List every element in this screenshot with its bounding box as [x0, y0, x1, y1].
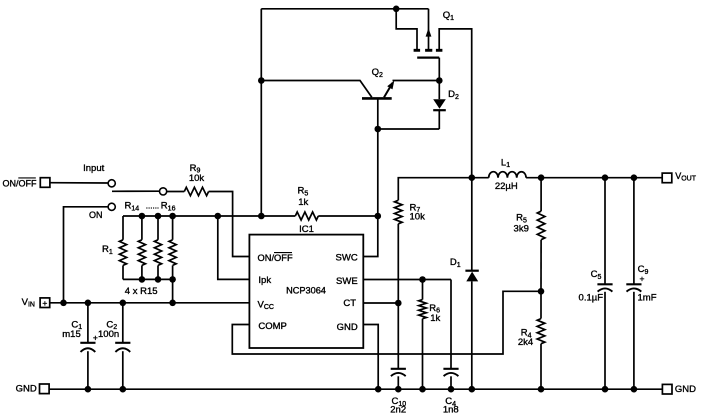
label R6	[429, 303, 440, 315]
svg-text:1mF: 1mF	[638, 293, 657, 304]
transistor Q1 (P-channel MOSFET)	[396, 9, 472, 178]
svg-text:+: +	[42, 298, 47, 308]
svg-text:ON/OFF: ON/OFF	[3, 178, 37, 188]
capacitor C9	[626, 178, 641, 390]
node dot output/C5	[602, 174, 609, 181]
svg-text:0.1µF: 0.1µF	[579, 293, 604, 304]
node dot VIN/bank leg	[169, 300, 176, 307]
svg-text:SWE: SWE	[336, 276, 358, 287]
ground rail dots	[85, 386, 638, 393]
node E dot R5 right / SWC vertical	[375, 213, 382, 220]
svg-text:3k9: 3k9	[514, 224, 529, 235]
svg-text:NCP3064: NCP3064	[286, 285, 326, 295]
label C10	[391, 396, 406, 408]
svg-text:COMP: COMP	[258, 321, 287, 332]
node dot VIN/C2	[120, 300, 127, 307]
label D1	[450, 257, 461, 269]
wire top rail from node A to Q1 source	[261, 8, 428, 10]
node A junction dot top rail	[393, 6, 400, 13]
wire bank bottom to VIN row	[172, 279, 174, 302]
svg-text:Ipk: Ipk	[258, 275, 271, 286]
inductor L1	[472, 172, 526, 178]
wire VIN row	[50, 302, 250, 304]
node D dot Q2 base row	[375, 126, 382, 133]
resistor R4	[537, 291, 545, 389]
label D2	[448, 89, 459, 101]
capacitor C1	[80, 303, 95, 389]
transistor Q2 (NPN)	[261, 81, 394, 99]
node H dot CT/R7/C10	[395, 300, 402, 307]
node dots bank bottom rail	[139, 276, 176, 283]
op-amp U1 IC1 NCP3064 box	[249, 235, 363, 348]
wire R5 to SWC vertical	[318, 215, 378, 217]
svg-text:IC1: IC1	[299, 224, 314, 235]
node F dot left loop / R5 row	[258, 213, 265, 220]
wire switch common to R9	[167, 191, 185, 193]
svg-text:m15: m15	[62, 329, 80, 340]
wire SWC vertical (base row to SWC pin)	[363, 129, 378, 257]
label R5 divider	[516, 213, 527, 225]
svg-text:GND: GND	[337, 322, 358, 333]
svg-text:ON/OFF: ON/OFF	[258, 253, 293, 263]
wire input terminal to switch pole	[50, 182, 108, 184]
node dot VIN/ON leg	[60, 300, 67, 307]
svg-text:10k: 10k	[189, 173, 205, 184]
pin label VCC	[258, 299, 274, 311]
terminal VOUT square	[662, 173, 672, 183]
node dots bank top rail	[139, 213, 176, 220]
terminal VIN square	[40, 298, 50, 308]
wire CT pin row	[363, 302, 398, 304]
label R14 ...... R16	[125, 201, 176, 213]
terminal ON/OFF input square	[40, 178, 50, 188]
node K dot L1 right / R5 divider top	[538, 174, 545, 181]
label C4	[445, 396, 456, 408]
svg-text:1k: 1k	[298, 197, 308, 208]
pin label ON/OFF	[258, 253, 293, 263]
switch common circle	[160, 188, 167, 195]
wire ON circle to VIN row	[64, 207, 109, 303]
node G dot Ipk leg / R5 row	[215, 213, 222, 220]
wire SWE row	[363, 279, 451, 281]
wire Q2 base lead	[377, 98, 379, 129]
label C1	[71, 319, 82, 331]
resistor R5 divider (3k9)	[537, 178, 545, 292]
capacitor C2	[115, 303, 130, 389]
label ON/OFF terminal	[3, 178, 37, 188]
wire left loop vertical (top rail to R5 row)	[260, 9, 262, 216]
wire GND pin to rail	[363, 325, 378, 390]
node L dot divider mid / COMP	[538, 288, 545, 295]
svg-text:100n: 100n	[98, 329, 119, 340]
node dot output/C9	[631, 174, 638, 181]
wire Ipk leg (R5 row to Ipk pin)	[218, 216, 250, 279]
wire Q1 gate lead	[438, 58, 440, 81]
node B dot Q2 collector rail	[258, 77, 265, 84]
resistor R7	[395, 178, 472, 303]
capacitor C5	[597, 178, 612, 390]
wire ground rail	[49, 388, 662, 390]
wire R5 row (bank to R5)	[123, 215, 295, 217]
terminal GND left square	[40, 384, 50, 394]
svg-text:GND: GND	[16, 384, 37, 395]
wire D2 cathode row to Q2 base	[378, 128, 440, 130]
switch blade	[112, 190, 159, 192]
label VIN	[22, 297, 35, 309]
label C9	[638, 264, 649, 276]
label Q2	[372, 67, 383, 79]
node J dot switch node	[469, 174, 476, 181]
diode D2	[433, 81, 446, 130]
svg-text:CT: CT	[343, 298, 356, 309]
node dot VIN/C1	[85, 300, 92, 307]
capacitor C10	[391, 303, 406, 389]
resistor R6	[419, 280, 427, 390]
label R7	[410, 202, 421, 214]
resistor bank R1 and 4 x R15	[119, 216, 176, 279]
svg-text:22µH: 22µH	[495, 181, 518, 192]
node C dot Q1 gate / Q2 emitter / D2 anode	[436, 77, 443, 84]
switch pole circle Input	[108, 180, 115, 187]
label VOUT	[675, 171, 697, 183]
svg-text:4 x R15: 4 x R15	[125, 286, 158, 297]
svg-text:ON: ON	[89, 210, 103, 220]
label Q1	[443, 10, 454, 22]
capacitor C4	[443, 280, 458, 390]
terminal GND right square	[662, 384, 672, 394]
resistor R5 (1k)	[295, 212, 318, 220]
node I dot SWE/R6	[419, 276, 426, 283]
svg-text:10k: 10k	[410, 211, 426, 222]
svg-text:SWC: SWC	[336, 253, 358, 264]
label R4	[521, 328, 532, 340]
svg-text:......: ......	[146, 202, 159, 211]
resistor R9	[184, 187, 208, 195]
svg-text:2k4: 2k4	[518, 337, 533, 348]
wire Q2 emitter to gate node	[393, 80, 440, 82]
label R5	[298, 186, 309, 198]
svg-text:1k: 1k	[430, 313, 440, 324]
wire COMP feedback to divider	[232, 291, 541, 354]
svg-text:1n8: 1n8	[443, 405, 459, 416]
label C2	[106, 319, 117, 331]
label R9	[190, 163, 201, 175]
diode D1	[465, 178, 478, 390]
svg-text:Input: Input	[83, 163, 104, 174]
switch pole circle ON	[108, 203, 115, 210]
svg-text:2n2: 2n2	[390, 405, 406, 416]
wire R9 to ON/OFF pin	[209, 192, 250, 257]
wire output row	[526, 177, 662, 179]
label C5	[591, 269, 602, 281]
label L1	[501, 157, 510, 169]
svg-text:GND: GND	[675, 384, 696, 395]
svg-text:+: +	[640, 274, 645, 284]
label R1	[102, 244, 113, 256]
